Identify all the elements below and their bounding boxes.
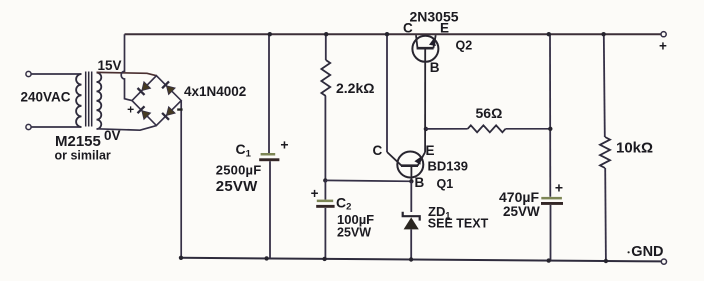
svg-text:+: +	[659, 39, 667, 54]
transistor Q2 2N3055	[412, 35, 438, 62]
zener diode ZD1 top lead	[410, 181, 412, 212]
capacitor C3 bottom lead	[550, 205, 552, 261]
resistor R1 2.2k lead from rail	[325, 34, 327, 60]
resistor R1 lead to base node	[324, 96, 326, 180]
svg-text:SEE TEXT: SEE TEXT	[428, 217, 489, 231]
svg-text:Q1: Q1	[437, 177, 454, 191]
wire: bridge - output drop to ground rail	[180, 101, 182, 258]
svg-text:E: E	[426, 143, 435, 158]
svg-text:B: B	[415, 175, 425, 190]
terminal: 240VAC input top	[26, 71, 31, 76]
node: base node at C2 top	[323, 178, 327, 182]
diode D1 (top-left, cathode to + node)	[138, 82, 151, 95]
zener diode ZD1 bottom lead	[410, 229, 412, 259]
resistor R3 lead to ground rail	[604, 168, 607, 261]
svg-text:B: B	[430, 60, 440, 75]
svg-text:470µF: 470µF	[499, 189, 539, 205]
wire: base node to Q1 base	[325, 179, 411, 182]
svg-text:15V: 15V	[98, 58, 122, 73]
svg-text:2N3055: 2N3055	[410, 9, 459, 25]
svg-text:25VW: 25VW	[503, 204, 540, 219]
capacitor C2 bottom lead	[324, 208, 326, 259]
svg-text:C: C	[403, 21, 413, 36]
terminal: + output	[661, 32, 666, 37]
svg-text:Q2: Q2	[456, 39, 473, 53]
svg-text:+: +	[127, 103, 134, 117]
capacitor C1 bottom lead	[269, 161, 271, 258]
svg-text:M2155: M2155	[55, 133, 101, 150]
diode D4 (bottom-right, anode at - node)	[162, 107, 175, 120]
wire: top positive rail	[125, 33, 661, 35]
svg-text:GND: GND	[631, 244, 663, 260]
svg-text:E: E	[440, 21, 449, 36]
node: bottom rail junctions	[179, 256, 183, 260]
wire: rail drop to Q1 collector	[386, 34, 388, 152]
terminal: GND output	[661, 259, 666, 264]
zener diode ZD1 symbol	[403, 212, 420, 230]
bridge rectifier diamond wires	[132, 76, 181, 126]
svg-text:240VAC: 240VAC	[21, 90, 71, 105]
svg-text:+: +	[280, 137, 288, 153]
svg-text:C: C	[373, 143, 383, 158]
diode D3 (top-right, anode at - node)	[162, 81, 175, 94]
svg-text:+: +	[555, 180, 563, 196]
svg-text:25VW: 25VW	[337, 226, 371, 240]
wire: Q2 base to Q1 emitter	[424, 48, 426, 152]
transistor Q1 BD139	[387, 152, 425, 182]
terminal: 240VAC input bottom	[26, 124, 31, 129]
node: 56 ohm right junction	[548, 127, 552, 131]
svg-text:+: +	[311, 186, 319, 201]
node: top rail junctions	[268, 32, 272, 36]
node: Q1 base junction	[409, 179, 413, 183]
wire: 0V secondary to bridge AC2	[97, 126, 157, 131]
svg-text:2.2kΩ: 2.2kΩ	[336, 80, 374, 96]
resistor R3 10k zigzag	[600, 137, 610, 168]
resistor R2 56 ohm leads and zigzag	[426, 128, 468, 130]
svg-text:56Ω: 56Ω	[476, 105, 503, 121]
transformer T1 primary winding	[76, 74, 81, 127]
wire: bottom ground rail	[181, 258, 661, 262]
transformer T1 core	[86, 72, 92, 127]
svg-text:2500µF: 2500µF	[216, 163, 262, 178]
transformer T1 secondary winding	[97, 73, 102, 129]
node: Q2 base / 56 ohm left junction	[424, 127, 428, 131]
wire: primary bottom lead	[31, 126, 81, 128]
capacitor C1 plates	[259, 153, 279, 161]
resistor R3 10k lead from rail	[604, 34, 605, 137]
capacitor C3 470uF plates	[541, 197, 563, 205]
resistor R1 2.2k zigzag	[321, 60, 330, 96]
capacitor C2 top lead	[324, 180, 326, 199]
wire: 15V secondary to bridge AC1	[97, 72, 157, 75]
wire: output rail drop to 56 ohm and C3	[549, 34, 551, 197]
svg-text:BD139: BD139	[428, 159, 468, 174]
diode D2 (bottom-left, cathode to + node)	[138, 106, 151, 119]
wire: primary top lead	[31, 73, 81, 75]
capacitor C2 plates	[316, 200, 334, 208]
svg-text:or similar: or similar	[55, 149, 111, 163]
label - inside bridge	[177, 108, 182, 110]
svg-text:4x1N4002: 4x1N4002	[184, 84, 246, 99]
wire: positive rail drop with hop over 15V wire to bridge +	[121, 34, 132, 100]
capacitor C1 top lead	[268, 34, 270, 153]
svg-text:10kΩ: 10kΩ	[616, 140, 653, 157]
svg-text:25VW: 25VW	[216, 178, 258, 195]
